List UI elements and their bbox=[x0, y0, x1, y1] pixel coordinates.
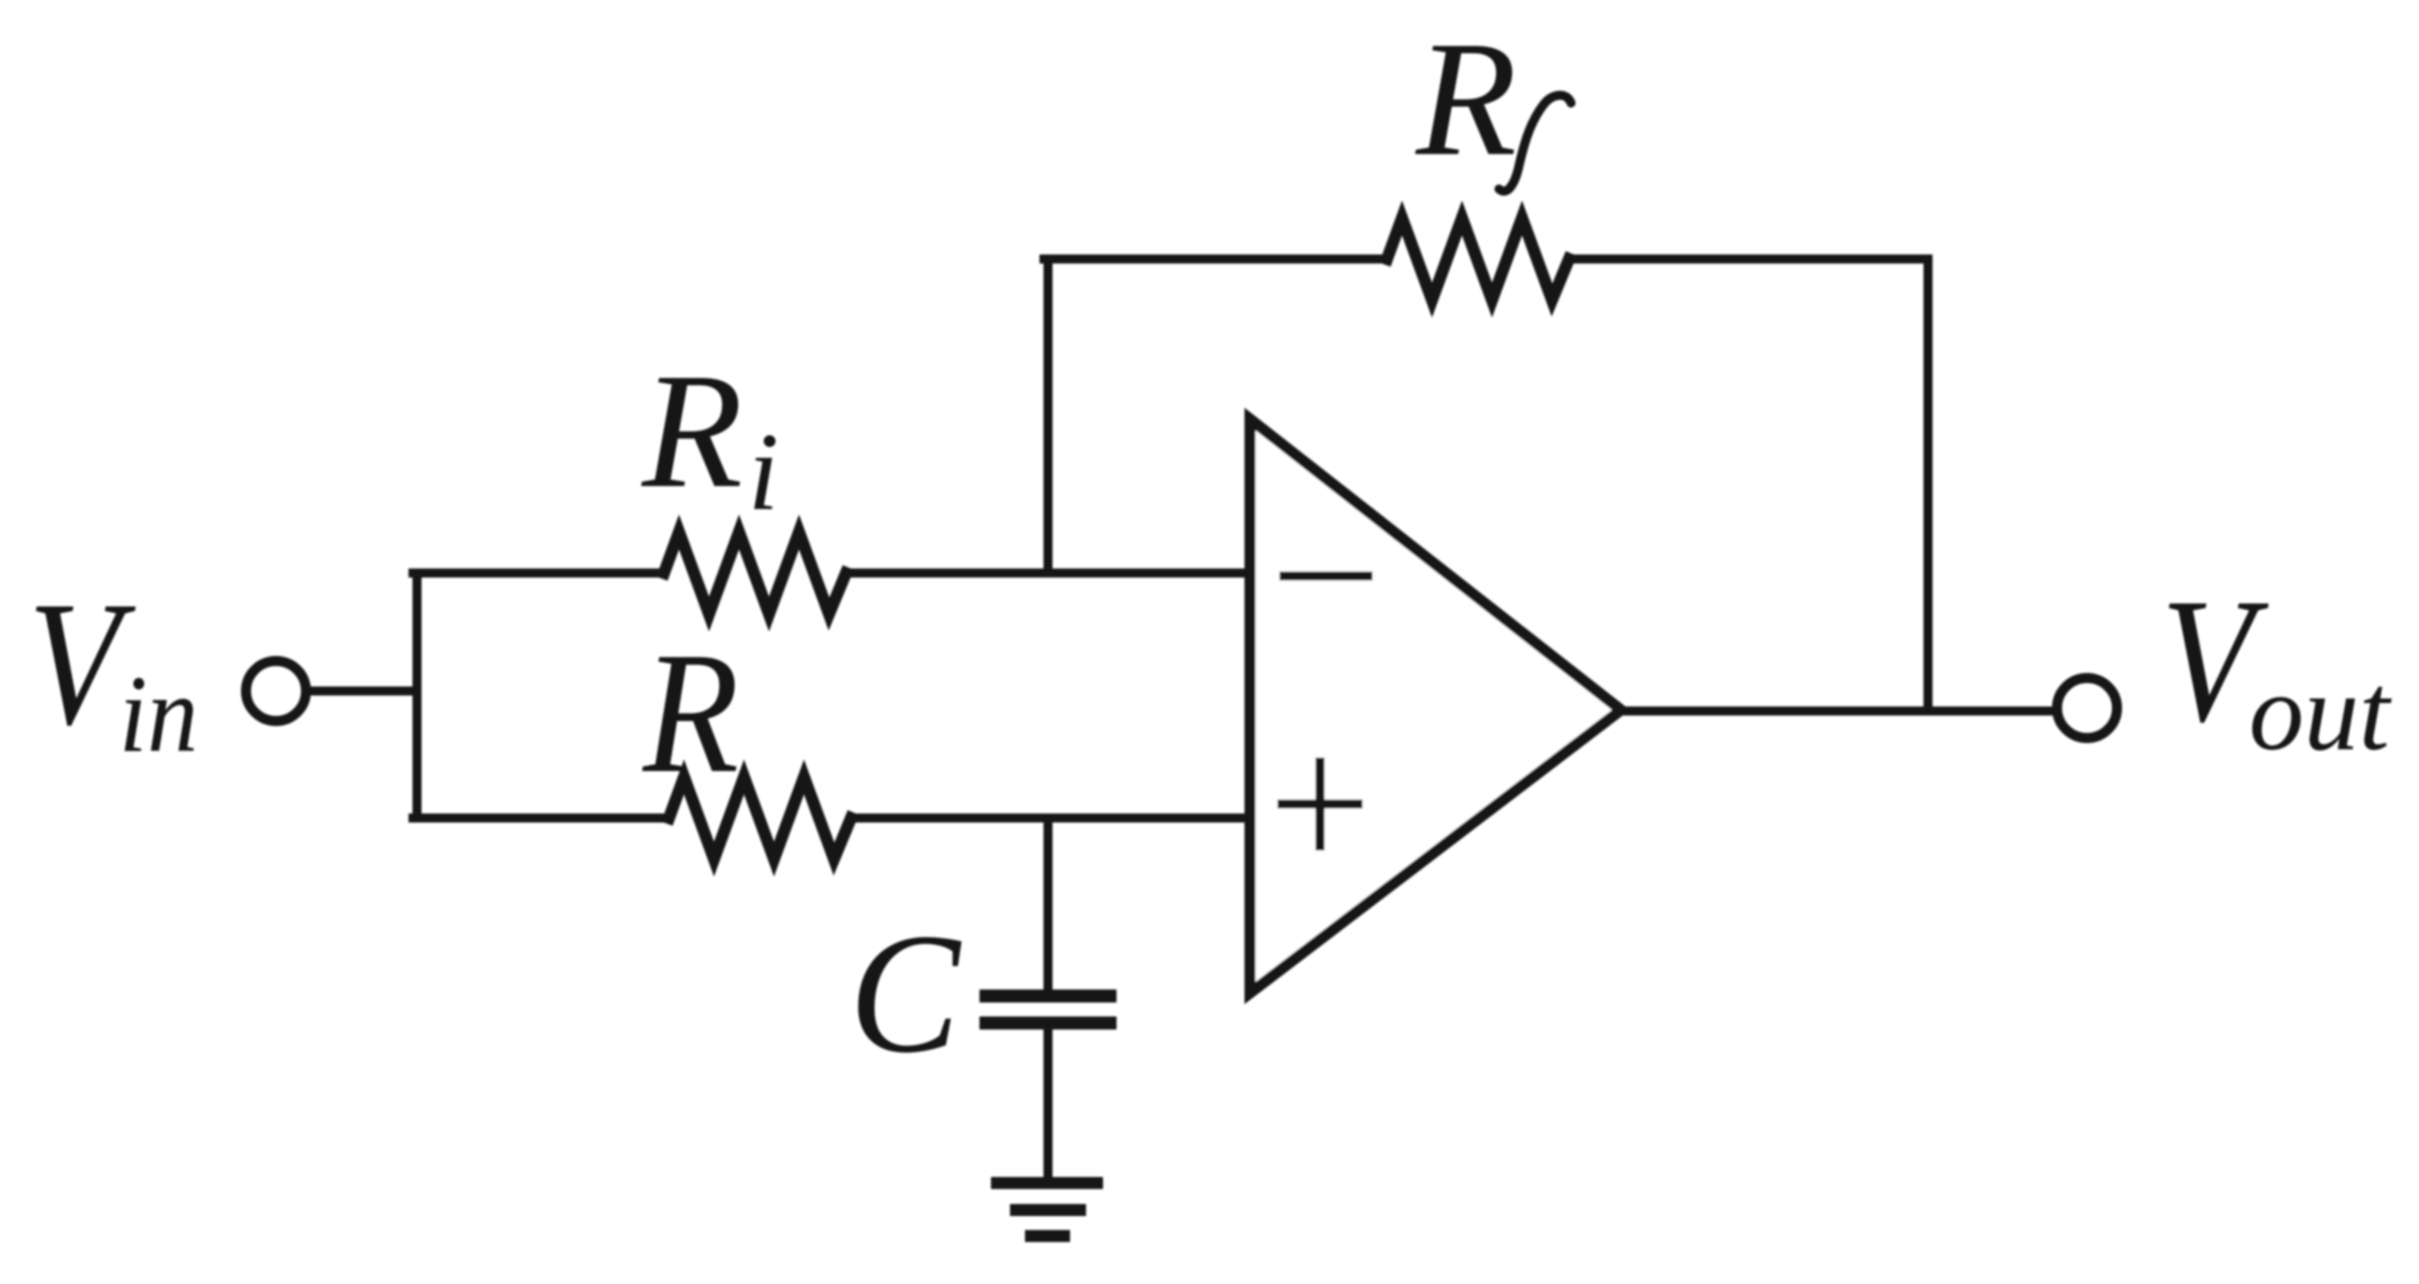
wire top branch left bbox=[413, 569, 664, 578]
label Vout bbox=[2161, 561, 2392, 773]
label R bbox=[642, 616, 739, 809]
wire feedback right vertical bbox=[1924, 259, 1933, 711]
wire capacitor bottom lead bbox=[1044, 1029, 1053, 1177]
ground bbox=[997, 1183, 1097, 1236]
svg-text:R: R bbox=[642, 616, 739, 809]
wire input split vertical bbox=[413, 573, 422, 818]
op-amp U1 bbox=[1250, 419, 1621, 993]
svg-text:R: R bbox=[641, 339, 743, 522]
op-amp minus pin mark bbox=[1284, 572, 1368, 581]
wire Vin lead bbox=[307, 687, 417, 696]
svg-text:C: C bbox=[849, 899, 962, 1089]
svg-text:in: in bbox=[119, 653, 198, 775]
svg-text:i: i bbox=[748, 411, 779, 534]
resistor Ri bbox=[664, 532, 846, 614]
label Vin bbox=[28, 564, 198, 775]
wire bottom branch right to op-amp plus bbox=[851, 814, 1250, 823]
wire feedback top left segment bbox=[1044, 255, 1387, 264]
resistor R bbox=[669, 777, 851, 859]
node Vout terminal bbox=[2057, 678, 2117, 738]
label C bbox=[849, 899, 962, 1089]
wire feedback top right segment bbox=[1569, 255, 1928, 264]
wire capacitor top lead bbox=[1044, 818, 1053, 990]
node Vin terminal bbox=[246, 661, 306, 721]
label Rf bbox=[1415, 7, 1571, 191]
svg-text:out: out bbox=[2249, 651, 2392, 773]
svg-text:R: R bbox=[1415, 7, 1517, 190]
label Ri bbox=[641, 339, 779, 534]
wire bottom branch left bbox=[413, 814, 669, 823]
resistor Rf bbox=[1387, 218, 1569, 300]
wire feedback vertical left bbox=[1044, 259, 1053, 573]
wire top branch right to op-amp minus bbox=[846, 569, 1250, 578]
wire output bbox=[1621, 707, 2056, 716]
capacitor C bbox=[986, 996, 1110, 1023]
op-amp plus pin mark bbox=[1282, 762, 1358, 846]
